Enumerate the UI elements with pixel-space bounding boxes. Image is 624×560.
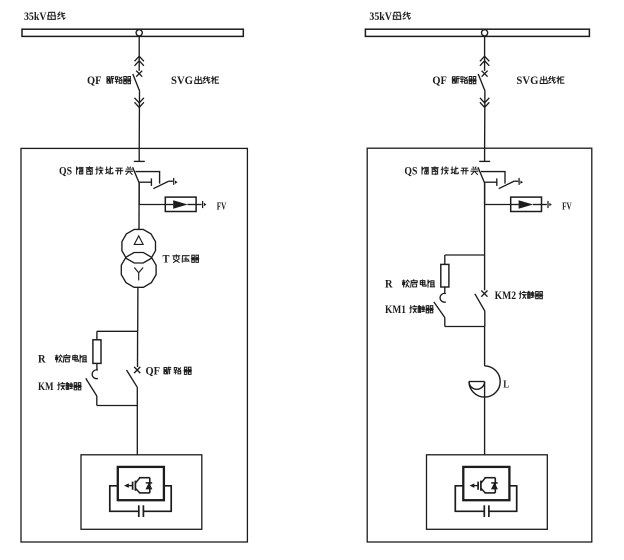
- wire: QS to transformer T: [138, 183, 140, 229]
- resistor R soft-start (right): [441, 264, 449, 287]
- breaker QF blade (left): [133, 74, 140, 91]
- wire: contactor KM1 to junction: [444, 318, 446, 327]
- arrester FV (left): [165, 197, 196, 211]
- transformer T delta symbol: [134, 236, 143, 245]
- label "KM2 接触器": [495, 290, 543, 302]
- transformer T secondary winding: [121, 253, 156, 288]
- disconnector QS blade (right): [478, 167, 485, 183]
- svg-text:R: R: [385, 279, 393, 291]
- wire: earth branch elbow (left): [136, 172, 160, 184]
- svg-text:QF: QF: [87, 75, 102, 87]
- wire: QS to FV tap (right): [484, 183, 486, 205]
- breaker QF blade (lower left): [127, 370, 138, 387]
- reactor L coil: [469, 366, 500, 397]
- wire: QS to branch tap (right): [484, 183, 486, 255]
- earth terminal (left): [174, 178, 178, 185]
- IGBT with freewheel diode (left): [125, 478, 152, 493]
- bus bar 35kV (right): [365, 29, 589, 36]
- wire: earth branch elbow (right): [481, 172, 505, 184]
- wire: breaker QF to cabinet (right): [484, 91, 486, 148]
- power module U (left): [118, 467, 164, 500]
- node: soft-start branch tap (right): [445, 254, 485, 256]
- disconnector QS blade (left): [133, 167, 140, 183]
- bus bar 35kV (left): [22, 29, 243, 36]
- label "KM 接触器": [38, 381, 81, 393]
- label "T 变压器": [163, 254, 199, 266]
- IGBT with freewheel diode (right): [471, 478, 498, 493]
- svg-text:FV: FV: [217, 201, 227, 212]
- svg-text:KM1: KM1: [385, 304, 406, 316]
- breaker QF contact cross (right): [482, 71, 488, 77]
- wire: junction to reactor L: [484, 327, 486, 366]
- earthing switch blade (left): [153, 181, 173, 189]
- label "L": [503, 379, 509, 390]
- transformer T wye symbol: [134, 268, 143, 281]
- wire: resistor to contactor KM1: [444, 287, 446, 294]
- label "R 软启电阻" (left): [38, 354, 87, 366]
- dc bus bracket (right): [455, 486, 516, 512]
- transformer T primary winding: [122, 229, 156, 263]
- svg-text:QF: QF: [432, 75, 447, 87]
- wire: FV branch (right): [485, 204, 511, 206]
- wire: cabinet entry to QS (right): [484, 148, 486, 161]
- contactor KM1 blade: [434, 302, 445, 318]
- label "SVG出线柜" (left): [171, 75, 219, 87]
- contactor KM2 contact cross: [481, 291, 487, 297]
- label "QF 断路器" (left): [87, 75, 131, 87]
- withdrawable contact lower (left): [135, 98, 144, 108]
- wire: cabinet entry to QS (left): [138, 148, 140, 161]
- node: bus tap junction (left): [136, 30, 142, 36]
- label "QS 隔离接地开关" (right): [404, 166, 478, 178]
- contactor KM blade: [86, 378, 97, 396]
- earthing switch fixed contact (right): [485, 178, 497, 186]
- label "35kV母线" (right): [369, 11, 410, 23]
- arrester FV (right): [511, 197, 542, 211]
- dc bus bracket (left): [110, 486, 171, 512]
- wire: bus to breaker QF (right): [484, 36, 486, 70]
- contactor KM fixed contact arc: [92, 370, 98, 379]
- svg-text:QF: QF: [146, 366, 161, 378]
- label "FV" (left): [217, 201, 227, 212]
- wire: tap to contactor KM2: [484, 255, 486, 290]
- svg-text:KM2: KM2: [495, 290, 517, 302]
- withdrawable contact lower (right): [480, 98, 489, 108]
- breaker QF contact cross (lower left): [134, 367, 140, 373]
- contactor KM1 fixed contact arc: [440, 293, 446, 302]
- wire: breaker QF to junction (left): [136, 387, 138, 405]
- contactor KM2 blade: [475, 294, 485, 311]
- FV terminal (left): [203, 201, 207, 208]
- label "QS 隔离接地开关" (left): [59, 166, 133, 178]
- converter unit box (right): [427, 455, 548, 530]
- label "QF 断路器" (right): [432, 75, 476, 87]
- breaker QF contact cross (left): [136, 71, 142, 77]
- svg-text:FV: FV: [562, 201, 572, 212]
- svg-text:L: L: [503, 379, 509, 390]
- svg-text:SVG: SVG: [516, 75, 538, 87]
- wire: QS to FV tap (left): [138, 183, 140, 205]
- wire: FV to terminal (left): [196, 204, 201, 206]
- cabinet outline (left): [21, 148, 247, 542]
- breaker QF blade (right): [478, 74, 485, 91]
- svg-text:QS: QS: [59, 166, 72, 178]
- FV terminal (right): [548, 201, 552, 208]
- power module U (right): [463, 467, 509, 500]
- wire: tap node to breaker QF (lower left): [137, 331, 139, 367]
- cabinet outline (right): [367, 148, 592, 542]
- wire: FV to terminal (right): [542, 204, 547, 206]
- earth terminal (right): [519, 178, 523, 185]
- wire: branch bottom return (right): [445, 326, 485, 328]
- wire: contactor KM2 to junction: [484, 311, 486, 327]
- wire: FV branch (left): [139, 204, 165, 206]
- wire: contactor KM to junction: [96, 396, 98, 406]
- dc link capacitor (left): [139, 505, 144, 517]
- dc link capacitor (right): [484, 505, 489, 517]
- wire: reactor to converter (right): [484, 382, 486, 455]
- label "SVG出线柜" (right): [516, 75, 564, 87]
- withdrawable contact upper (left): [135, 56, 144, 66]
- svg-text:QS: QS: [404, 166, 417, 178]
- wire: branch down to resistor R (right): [444, 255, 446, 264]
- disconnector QS top contact tick (left): [134, 160, 145, 162]
- earthing switch blade (right): [499, 181, 519, 189]
- converter unit box (left): [81, 455, 202, 530]
- svg-text:SVG: SVG: [171, 75, 193, 87]
- node: soft-start branch tap (left): [97, 330, 138, 332]
- svg-text:35kV: 35kV: [369, 11, 392, 23]
- wire: branch bottom return (left): [97, 405, 138, 407]
- wire: junction to converter (left): [136, 406, 138, 455]
- wire: breaker QF to cabinet (left): [138, 91, 140, 148]
- wire: bus to breaker QF (left): [138, 36, 140, 70]
- svg-text:35kV: 35kV: [24, 11, 47, 23]
- disconnector QS top contact tick (right): [479, 160, 490, 162]
- wire: branch down to resistor R: [96, 331, 98, 340]
- label "QF 断路器" (lower left): [146, 366, 192, 378]
- svg-text:KM: KM: [38, 381, 54, 393]
- label "35kV母线" (left): [24, 11, 65, 23]
- svg-text:R: R: [38, 354, 46, 366]
- withdrawable contact upper (right): [480, 56, 489, 66]
- label "R 软启电阻" (right): [385, 279, 435, 291]
- label "FV" (right): [562, 201, 572, 212]
- earthing switch fixed contact (left): [139, 178, 151, 186]
- node: bus tap junction (right): [482, 30, 488, 36]
- label "KM1 接触器": [385, 304, 433, 316]
- wire: resistor to contactor KM: [96, 363, 98, 370]
- resistor R soft-start (left): [93, 340, 101, 364]
- wire: transformer to tap node: [137, 288, 139, 331]
- svg-text:T: T: [163, 254, 170, 266]
